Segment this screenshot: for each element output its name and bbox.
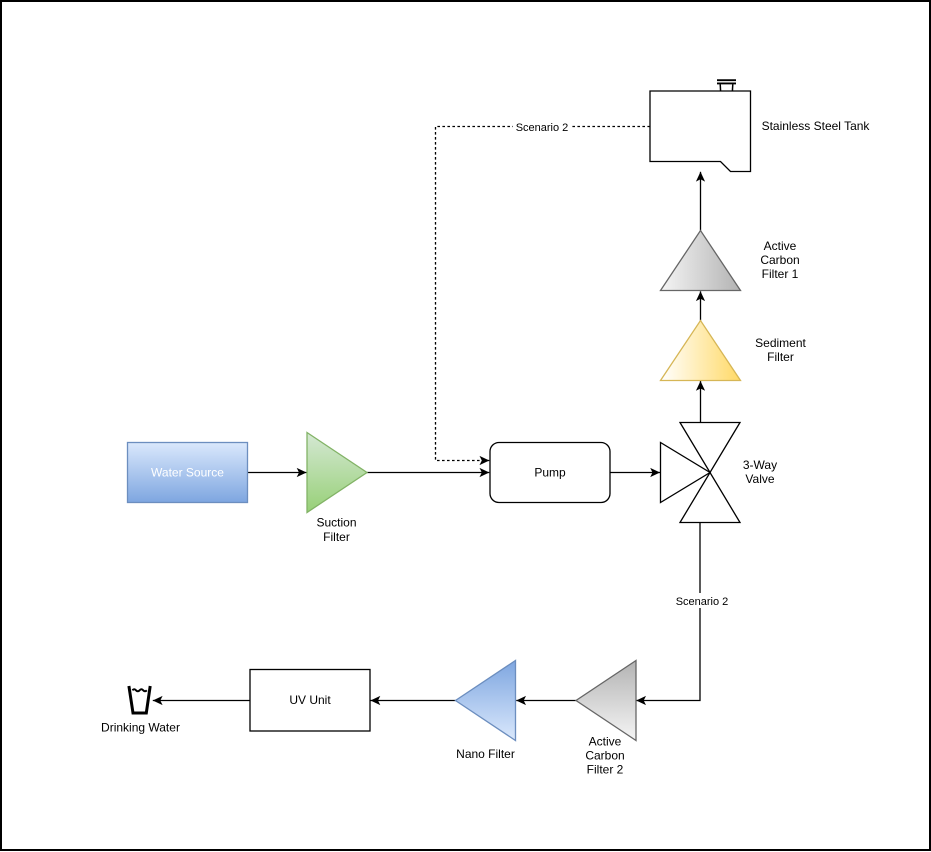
svg-text:Water Source: Water Source: [151, 466, 224, 480]
wire: Nano Filter to UV Unit: [371, 700, 456, 702]
svg-text:Scenario 2: Scenario 2: [676, 596, 729, 608]
wire: Suction Filter to Pump: [367, 472, 489, 474]
node: Suction Filter triangle: [307, 433, 367, 513]
svg-text:Drinking Water: Drinking Water: [101, 721, 180, 735]
label: Scenario 2 on bottom wire: [673, 593, 731, 608]
node: Water Source: [128, 443, 248, 503]
svg-text:Sediment: Sediment: [755, 336, 806, 350]
svg-text:Nano Filter: Nano Filter: [456, 747, 515, 761]
wire: dashed Scenario 2 tank to Pump: [436, 127, 651, 461]
node: UV Unit: [250, 670, 370, 732]
svg-text:Scenario 2: Scenario 2: [516, 122, 569, 134]
node: Nano Filter triangle: [456, 661, 516, 741]
svg-text:Filter 2: Filter 2: [587, 763, 624, 777]
svg-text:Active: Active: [764, 239, 797, 253]
wire: UV Unit to Drinking Water: [153, 700, 250, 702]
node: 3-way valve: [661, 423, 741, 523]
svg-text:Carbon: Carbon: [760, 253, 799, 267]
svg-text:3-Way: 3-Way: [743, 458, 777, 472]
svg-text:Stainless Steel Tank: Stainless Steel Tank: [762, 119, 871, 133]
node: Active Carbon Filter 2 triangle: [576, 661, 636, 741]
node: Sediment Filter triangle: [661, 321, 741, 381]
label: Scenario 2 on dashed wire: [513, 119, 571, 134]
node: Drinking Water cup: [129, 686, 150, 713]
svg-text:Suction: Suction: [316, 516, 356, 530]
node: Stainless Steel Tank: [650, 91, 751, 172]
svg-text:UV Unit: UV Unit: [289, 693, 331, 707]
wire: valve bottom to Active Carbon Filter 2 (Scenario 2 branch): [636, 523, 700, 701]
svg-text:Active: Active: [589, 735, 622, 749]
wire: Active Carbon Filter 1 to tank: [700, 172, 702, 231]
svg-text:Valve: Valve: [745, 472, 774, 486]
wire: Active Carbon Filter 2 to Nano Filter: [516, 700, 576, 702]
svg-text:Carbon: Carbon: [585, 749, 624, 763]
wire: Pump to 3-Way Valve: [610, 472, 660, 474]
svg-text:Pump: Pump: [534, 466, 566, 480]
tank cap: [717, 80, 736, 91]
svg-text:Filter 1: Filter 1: [762, 267, 799, 281]
svg-text:Filter: Filter: [323, 530, 350, 544]
svg-text:Filter: Filter: [767, 350, 794, 364]
node: Active Carbon Filter 1 triangle: [661, 231, 741, 291]
wire: Water Source to Suction Filter: [248, 472, 307, 474]
node: Pump: [490, 443, 610, 503]
wire: Sediment Filter to Active Carbon Filter 1: [700, 291, 702, 320]
wire: valve top to Sediment Filter: [700, 381, 702, 423]
